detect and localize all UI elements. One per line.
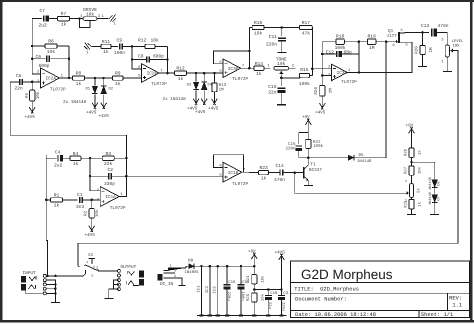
svg-text:1k: 1k [103, 49, 109, 55]
wire [283, 172, 295, 174]
wire: C12/R18 left bus [321, 42, 323, 76]
svg-text:C7: C7 [40, 8, 46, 14]
svg-text:2u2: 2u2 [54, 163, 63, 169]
wire: input tip row [46, 275, 83, 277]
junction [68, 77, 71, 80]
ground (R20) [418, 65, 427, 67]
junction [54, 292, 57, 295]
svg-text:1: 1 [170, 264, 172, 269]
wire [446, 41, 448, 45]
diode D7 body [432, 195, 438, 203]
svg-text:220n: 220n [266, 42, 277, 48]
OUTPUT jack pin 5 [117, 288, 120, 291]
svg-text:R5: R5 [25, 93, 30, 99]
wire: R17 to IC3A- riser [311, 28, 313, 76]
svg-text:10k: 10k [86, 11, 95, 17]
svg-text:R22: R22 [313, 140, 321, 145]
svg-text:10k: 10k [261, 293, 266, 301]
svg-text:+4V5: +4V5 [195, 110, 206, 115]
capacitor C12 [337, 51, 342, 57]
svg-text:C10: C10 [268, 84, 277, 90]
svg-text:R13: R13 [219, 83, 227, 88]
junction [213, 72, 216, 75]
svg-text:INPUT: INPUT [23, 271, 37, 276]
wire [111, 175, 126, 177]
svg-text:1: 1 [405, 179, 407, 184]
svg-text:R4: R4 [73, 151, 79, 157]
svg-text:47k: 47k [302, 30, 311, 36]
svg-text:TL072P: TL072P [50, 88, 66, 93]
diode D2 body [101, 86, 107, 94]
wire [298, 150, 300, 158]
svg-text:1k: 1k [418, 201, 423, 206]
svg-text:2: 2 [96, 266, 98, 271]
svg-text:DC_IN: DC_IN [160, 282, 174, 287]
diode D1 [94, 78, 96, 86]
ground bar (output jack) [104, 298, 113, 300]
svg-text:TL072P: TL072P [232, 77, 248, 82]
capacitor C4 [46, 157, 56, 159]
ground (T1) [304, 184, 313, 186]
junction (rail) [217, 265, 220, 268]
svg-text:220u: 220u [226, 292, 231, 301]
wire [281, 41, 283, 52]
wire: +9V rail [299, 132, 309, 134]
svg-text:C1: C1 [77, 192, 83, 198]
capacitor C6 [47, 56, 50, 62]
svg-text:T1: T1 [311, 163, 317, 168]
wire [411, 175, 413, 183]
capacitor C17 [240, 266, 242, 284]
ground bar (input jack) [51, 301, 60, 303]
wire [240, 289, 242, 315]
junction [293, 171, 296, 174]
junction [203, 72, 206, 75]
potentiometer R28 (trim) [409, 184, 413, 198]
wire: IC1A fb bus [90, 158, 100, 191]
svg-text:S1: S1 [88, 253, 94, 258]
wire [114, 280, 119, 289]
svg-text:R24: R24 [246, 275, 251, 283]
svg-text:TL072P: TL072P [110, 206, 126, 211]
svg-text:10k: 10k [418, 166, 423, 174]
svg-text:C4: C4 [55, 150, 61, 156]
svg-text:22k: 22k [104, 161, 113, 167]
svg-text:C13: C13 [421, 23, 430, 29]
svg-text:IC3A: IC3A [337, 71, 348, 76]
diode D4 [203, 73, 205, 81]
junction [125, 175, 128, 178]
svg-text:R20: R20 [415, 46, 420, 54]
svg-text:5k: 5k [417, 188, 422, 193]
capacitor C5 [20, 79, 23, 85]
resistor R25 [252, 293, 257, 302]
scan border top [0, 0, 474, 2]
wire: from IC1A output to C5 [10, 82, 126, 135]
bias resistor R21 [321, 76, 323, 86]
svg-text:10k: 10k [453, 44, 461, 49]
svg-text:C9: C9 [117, 38, 123, 44]
capacitor C14 [280, 170, 283, 176]
capacitor C16 (electrolytic) [226, 266, 228, 284]
svg-text:D8: D8 [188, 259, 194, 264]
resistor R4 [63, 156, 90, 160]
wire: IC3B output node [241, 67, 254, 69]
wire [123, 45, 132, 47]
op-amp IC3A [332, 64, 348, 80]
svg-text:TL072P: TL072P [341, 80, 357, 85]
svg-text:+4V5: +4V5 [208, 107, 219, 112]
svg-text:R27: R27 [403, 166, 408, 174]
junction [46, 275, 49, 278]
wire [411, 209, 413, 214]
svg-text:R20: R20 [314, 87, 319, 95]
svg-text:1k: 1k [261, 175, 267, 181]
wire [253, 284, 255, 293]
junction [131, 45, 134, 48]
wire [51, 58, 69, 60]
wire: IC2B inv bus [132, 46, 142, 69]
svg-text:G: G [393, 43, 395, 48]
resistor R7 [48, 16, 79, 20]
svg-text:1N4148: 1N4148 [357, 159, 372, 164]
junction [321, 53, 324, 56]
power +9V (chain) [409, 127, 415, 141]
wire [289, 67, 296, 69]
svg-text:OUTPUT: OUTPUT [121, 265, 137, 270]
resistor R23 [249, 170, 280, 174]
op-amp IC3B [223, 59, 241, 78]
power +9V (R22) [305, 118, 311, 132]
junction [307, 156, 310, 159]
wire: wiper drive line [295, 173, 405, 194]
wire: IC2B output [159, 72, 174, 74]
wire [446, 57, 448, 71]
diode D3 body [193, 82, 199, 90]
wire [32, 58, 45, 60]
resistor R9 [113, 76, 142, 80]
op-amp IC2B [142, 64, 160, 82]
wire [434, 202, 436, 214]
wire [321, 96, 323, 100]
junction [253, 288, 256, 291]
svg-text:2x 1N4148: 2x 1N4148 [163, 97, 187, 102]
svg-text:1: 1 [86, 260, 88, 265]
svg-text:S: S [401, 28, 403, 33]
svg-text:IC2B: IC2B [147, 72, 158, 77]
svg-text:R1: R1 [54, 193, 60, 199]
svg-text:Date: 10.06.2006 18:12:48: Date: 10.06.2006 18:12:48 [295, 312, 376, 318]
wire [307, 149, 309, 158]
wire: IC2B feedback right leg [166, 46, 168, 73]
wire [23, 81, 41, 83]
OUTPUT jack pin 4 [117, 283, 120, 286]
svg-text:C18: C18 [270, 291, 278, 296]
junction [248, 67, 251, 70]
svg-text:330p: 330p [104, 181, 115, 187]
svg-text:22n: 22n [268, 90, 277, 96]
capacitor C9 [120, 43, 123, 49]
wire [104, 77, 113, 79]
junction [94, 77, 97, 80]
junction [54, 275, 57, 278]
ground (R29) [407, 214, 416, 216]
ground (LEVEL) [443, 71, 452, 73]
svg-text:1N4001: 1N4001 [185, 270, 200, 275]
power +4V5 (R21) [319, 100, 325, 110]
resistor R17 [282, 25, 312, 29]
title block frame [290, 261, 469, 317]
capacitor C11 body [278, 38, 286, 41]
wire [95, 77, 104, 79]
wire: input jack grounds [46, 280, 55, 293]
resistor R16 [249, 25, 281, 29]
wire: IC2 supply pin [209, 266, 211, 315]
svg-text:C5: C5 [16, 73, 22, 79]
wire [32, 18, 42, 20]
INPUT jack pin 3 [43, 283, 46, 286]
svg-text:IC1B: IC1B [228, 171, 239, 176]
wire: IC3B output riser to R16 [248, 28, 250, 69]
svg-text:R17: R17 [302, 20, 311, 26]
svg-text:D: D [406, 43, 408, 48]
junction [421, 31, 424, 34]
transistor T1 BC337 [304, 165, 308, 181]
wire: Q1 drain to C13 rail [405, 31, 429, 34]
diode D5 [348, 155, 354, 160]
svg-text:C11: C11 [269, 34, 278, 40]
svg-text:D7: D7 [436, 196, 441, 200]
wiper arrow R28 [407, 191, 409, 195]
svg-text:+4V5: +4V5 [85, 233, 96, 238]
junction (rail) [240, 265, 243, 268]
svg-text:R15: R15 [300, 67, 309, 73]
wire: switch common from jack [84, 270, 86, 276]
connector DC_IN [158, 268, 187, 280]
svg-text:C3: C3 [283, 291, 288, 296]
svg-text:D3: D3 [187, 83, 192, 88]
resistor R13 [212, 73, 217, 95]
OUTPUT jack pin 2 [117, 274, 120, 277]
ground (DC_IN) [179, 285, 186, 287]
capacitor C15 [298, 133, 300, 145]
wire [411, 198, 413, 200]
svg-text:1k: 1k [115, 81, 121, 87]
resistor R19 [359, 39, 386, 45]
junction [280, 288, 283, 291]
svg-text:R7: R7 [61, 11, 67, 17]
svg-text:1N4148: 1N4148 [428, 192, 433, 205]
wire: C12 right leg [341, 42, 359, 54]
svg-text:10k: 10k [261, 275, 266, 283]
svg-text:C14: C14 [276, 163, 285, 169]
svg-text:1k: 1k [418, 150, 423, 155]
resistor R1 [46, 198, 77, 202]
svg-text:100k: 100k [335, 45, 346, 51]
svg-text:D6: D6 [436, 181, 441, 185]
junction [102, 77, 105, 80]
capacitor C10 body [277, 88, 285, 93]
wire: output jack ground [109, 289, 119, 298]
wire: output to Q1 source loop [358, 42, 360, 73]
INPUT jack pin 2 [43, 279, 46, 282]
capacitor C4 body [58, 155, 63, 161]
svg-text:10k: 10k [47, 49, 56, 55]
svg-text:1k: 1k [73, 161, 79, 167]
svg-text:+4V5: +4V5 [315, 111, 326, 116]
wire: IC1B output [242, 171, 249, 173]
wire [46, 283, 55, 285]
wire: base from C14 [295, 172, 304, 174]
capacitor C13 [432, 28, 437, 36]
junction [410, 161, 413, 164]
wire: T1 emitter to ground [307, 181, 309, 185]
wire: to D6/D7 branch [412, 162, 435, 179]
diode D3 [195, 73, 197, 81]
svg-text:7: 7 [160, 68, 162, 73]
svg-text:+9V: +9V [406, 124, 414, 129]
op-amp IC1B [223, 162, 242, 182]
svg-text:R6: R6 [48, 39, 54, 45]
wire: +4V5 node [254, 289, 281, 291]
resistor R5 [30, 82, 35, 101]
resistor R12 [132, 44, 167, 48]
INPUT jack pin 1 [43, 274, 46, 277]
svg-text:3n3: 3n3 [76, 204, 85, 210]
ground (C11) [277, 52, 286, 54]
wire: DRIVE wiper return [80, 20, 91, 28]
power +4V5 (D2) [101, 95, 107, 110]
wire [114, 284, 119, 286]
resistor R29 [409, 200, 414, 209]
svg-text:IC1A: IC1A [105, 195, 116, 200]
svg-text:R25: R25 [246, 293, 251, 301]
svg-text:2u2: 2u2 [39, 23, 48, 29]
svg-text:R12: R12 [176, 66, 185, 72]
wire [253, 302, 255, 315]
svg-text:+9V: +9V [248, 249, 256, 254]
svg-text:R18: R18 [336, 34, 345, 40]
ground (input jack) [54, 293, 56, 301]
svg-text:100n: 100n [114, 50, 125, 56]
capacitor C18 [267, 290, 269, 296]
wire: T1 collector [307, 158, 309, 165]
svg-text:J177: J177 [387, 34, 398, 39]
capacitor C8 [147, 56, 150, 62]
svg-text:3: 3 [91, 274, 93, 279]
wire [90, 175, 109, 177]
wire: D5 cathode up to Q1 gate [354, 42, 386, 158]
svg-text:R12: R12 [138, 38, 147, 44]
svg-text:C16: C16 [228, 280, 236, 285]
scan border left [0, 0, 3, 322]
potentiometer LEVEL [445, 45, 449, 57]
junction [281, 26, 284, 29]
wire: switch to output jack [98, 270, 119, 272]
wire: +9V rail (power section) [195, 265, 255, 267]
svg-text:R11: R11 [102, 39, 111, 45]
transistor Q1 J177 [386, 41, 395, 43]
scan border right [470, 0, 473, 322]
op-amp IC2A [41, 68, 60, 88]
OUTPUT jack pin 3 [117, 279, 120, 282]
junction [89, 175, 92, 178]
resistor R27 [409, 166, 414, 175]
svg-text:22n: 22n [15, 86, 24, 92]
wire [83, 199, 101, 201]
svg-text:470n: 470n [274, 177, 285, 183]
wire: IC1A output riser [120, 135, 127, 196]
svg-text:680p: 680p [153, 54, 164, 60]
op-amp IC1A [100, 187, 119, 207]
power +4V5 (D4) [201, 91, 207, 106]
diode D6 body [432, 180, 438, 188]
svg-text:R14: R14 [255, 61, 264, 67]
capacitor C11 [281, 28, 283, 37]
capacitor C3 [281, 290, 283, 296]
wire: IC1A out to IC1B+ [126, 175, 222, 177]
wire: IC2A inverting bus [32, 19, 40, 74]
resistor R3 [90, 156, 126, 160]
wire [405, 192, 407, 194]
resistor R12b [175, 71, 187, 75]
resistor R6 [32, 44, 69, 48]
svg-text:D5: D5 [359, 153, 365, 158]
capacitor C1 [80, 197, 83, 203]
resistor R24 [253, 266, 255, 274]
diode D1 body [92, 86, 98, 94]
resistor R15 [281, 77, 299, 79]
svg-text:R9: R9 [115, 71, 121, 77]
resistor R14 [254, 66, 271, 70]
junction [78, 17, 81, 20]
junction [68, 58, 71, 61]
wire [226, 289, 228, 315]
svg-text:1.1: 1.1 [452, 302, 462, 308]
wire [132, 59, 147, 61]
power +4V5 (D3) [193, 91, 199, 106]
svg-text:IC3B: IC3B [228, 67, 239, 72]
svg-text:R16: R16 [254, 20, 263, 26]
resistor R11 [101, 44, 118, 48]
junction [125, 157, 128, 160]
svg-text:R2: R2 [84, 210, 89, 216]
wire: to IC3B+ [187, 72, 223, 74]
connector JP1 (drive jumper) [97, 18, 109, 20]
svg-text:Document Number:: Document Number: [295, 297, 347, 303]
junction [195, 72, 198, 75]
svg-text:R26: R26 [403, 148, 408, 156]
junction [54, 283, 57, 286]
junction [89, 157, 92, 160]
capacitor C2 [109, 173, 112, 179]
svg-text:+9V: +9V [302, 115, 310, 120]
diode D8 [189, 264, 195, 269]
svg-text:Sheet: 1/1: Sheet: 1/1 [421, 312, 453, 318]
junction [385, 40, 388, 43]
wire: IC3A- stub [312, 68, 331, 70]
power +4V5 (R5) [29, 101, 35, 114]
capacitor C7 [44, 16, 49, 22]
svg-text:1M: 1M [329, 88, 334, 94]
svg-text:1N4148: 1N4148 [428, 177, 433, 190]
wire [411, 157, 413, 166]
svg-text:R29: R29 [403, 200, 408, 208]
potentiometer DRIVE body [83, 17, 97, 21]
scan border bottom [0, 320, 474, 323]
svg-text:R8: R8 [76, 71, 82, 77]
svg-text:TL072P: TL072P [151, 82, 167, 87]
